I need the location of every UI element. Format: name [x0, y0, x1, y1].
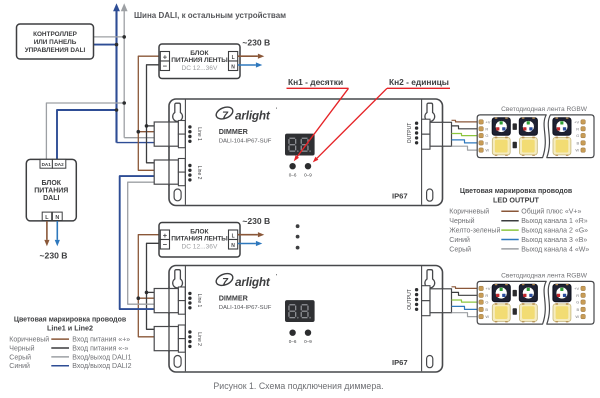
svg-text:Кн2 - единицы: Кн2 - единицы [389, 77, 449, 87]
svg-text:DA2: DA2 [54, 162, 64, 167]
svg-text:ПИТАНИЯ ЛЕНТЫ: ПИТАНИЯ ЛЕНТЫ [171, 57, 228, 64]
svg-text:Рисунок 1. Схема подключения д: Рисунок 1. Схема подключения диммера. [213, 381, 383, 391]
svg-text:Выход канала 3 «B»: Выход канала 3 «B» [521, 237, 587, 244]
svg-text:Вход питания «+»: Вход питания «+» [72, 337, 130, 344]
svg-text:ИЛИ ПАНЕЛЬ: ИЛИ ПАНЕЛЬ [34, 39, 77, 46]
svg-text:Общий плюс «V+»: Общий плюс «V+» [521, 208, 581, 216]
svg-text:Коричневый: Коричневый [9, 336, 49, 344]
svg-text:Вход/выход DALI1: Вход/выход DALI1 [72, 354, 131, 361]
svg-text:Цветовая маркировка проводов: Цветовая маркировка проводов [460, 188, 573, 195]
svg-text:Синий: Синий [9, 362, 30, 370]
svg-text:N: N [231, 64, 235, 70]
svg-text:Шина DALI, к остальным устройс: Шина DALI, к остальным устройствам [134, 11, 286, 20]
svg-text:БЛОК: БЛОК [42, 180, 62, 187]
svg-text:Цветовая маркировка проводов: Цветовая маркировка проводов [14, 317, 127, 324]
svg-text:Выход канала 1 «R»: Выход канала 1 «R» [521, 218, 587, 225]
svg-text:Черный: Черный [9, 344, 34, 352]
svg-text:L: L [232, 55, 235, 61]
svg-text:Line1 и Line2: Line1 и Line2 [47, 324, 93, 333]
svg-text:КОНТРОЛЛЕР: КОНТРОЛЛЕР [33, 31, 78, 38]
svg-text:DALI: DALI [43, 195, 59, 202]
svg-text:Выход канала 4 «W»: Выход канала 4 «W» [521, 246, 589, 253]
svg-text:Коричневый: Коричневый [449, 208, 489, 216]
svg-text:ПИТАНИЯ: ПИТАНИЯ [34, 187, 68, 194]
svg-text:Синий: Синий [449, 236, 470, 244]
svg-text:LED OUTPUT: LED OUTPUT [493, 196, 540, 205]
svg-text:Выход канала 2 «G»: Выход канала 2 «G» [521, 228, 588, 235]
svg-text:N: N [55, 215, 59, 221]
svg-text:~230 В: ~230 В [242, 37, 270, 47]
svg-text:УПРАВЛЕНИЯ DALI: УПРАВЛЕНИЯ DALI [25, 47, 86, 54]
svg-text:DA1: DA1 [42, 162, 52, 167]
svg-text:Вход питания «-»: Вход питания «-» [72, 345, 128, 352]
svg-text:−: − [163, 61, 168, 70]
svg-text:Черный: Черный [449, 217, 474, 225]
svg-text:Серый: Серый [9, 353, 31, 361]
svg-text:Кн1 - десятки: Кн1 - десятки [288, 77, 343, 87]
svg-text:Вход/выход DALI2: Вход/выход DALI2 [72, 363, 131, 370]
svg-text:БЛОК: БЛОК [190, 50, 209, 57]
svg-text:Желто-зеленый: Желто-зеленый [449, 227, 500, 235]
svg-text:Серый: Серый [449, 245, 471, 253]
svg-text:+: + [163, 52, 168, 61]
svg-text:~230 В: ~230 В [40, 251, 68, 261]
svg-text:DC 12...36V: DC 12...36V [181, 65, 218, 72]
